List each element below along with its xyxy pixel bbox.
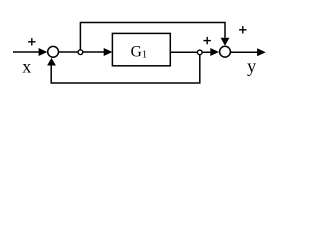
block G1 bbox=[112, 33, 170, 65]
arrowhead into summing junction S2 left bbox=[210, 48, 219, 56]
svg-text:y: y bbox=[247, 56, 256, 76]
plus sign at S2 top input bbox=[239, 26, 246, 33]
arrowhead into summing junction S1 bbox=[39, 48, 48, 56]
svg-text:1: 1 bbox=[142, 50, 147, 61]
wire: feedforward path up from P1, across top, down to S2 bbox=[80, 23, 225, 50]
plus sign at S2 left input bbox=[204, 37, 211, 44]
wire: S2 to output bbox=[231, 51, 258, 53]
arrowhead up into summing junction S1 bottom bbox=[47, 58, 56, 66]
wire: feedback path from P2 down, across bottom, up to S1 bbox=[51, 55, 200, 83]
node: pickoff point P2 bbox=[197, 50, 202, 55]
wire: G1 output to S2 bbox=[170, 51, 211, 53]
wire: S1 to G1 block bbox=[59, 51, 105, 53]
node: pickoff point P1 bbox=[78, 50, 83, 55]
arrowhead into block G1 bbox=[104, 48, 113, 56]
svg-text:G: G bbox=[131, 43, 142, 60]
summing junction S2 bbox=[220, 46, 231, 57]
summing junction S1 bbox=[48, 46, 59, 57]
wire: input line from left bbox=[13, 51, 39, 53]
svg-text:x: x bbox=[22, 57, 31, 77]
arrowhead down into summing junction S2 bbox=[221, 38, 230, 46]
arrowhead output bbox=[257, 48, 266, 56]
plus sign at S1 left input bbox=[28, 38, 35, 45]
